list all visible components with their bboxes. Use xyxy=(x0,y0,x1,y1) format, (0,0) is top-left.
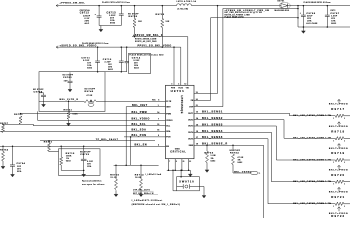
resistor R9754 xyxy=(232,144,234,146)
ground filter xyxy=(83,170,85,174)
wire riser to LED row 1 xyxy=(289,113,291,116)
svg-text:0402: 0402 xyxy=(66,160,71,163)
wire U9701 OUT row 1 xyxy=(194,112,290,114)
ground for C9712 C9713 xyxy=(100,26,102,30)
svg-text:+: + xyxy=(300,12,302,14)
svg-text:R9754: R9754 xyxy=(230,152,239,155)
svg-text:CRITICAL: CRITICAL xyxy=(170,151,186,154)
svg-text:(EEPROM should set XM_I_REG=1): (EEPROM should set XM_I_REG=1) xyxy=(132,203,181,206)
wire U9701 OUT row 3 xyxy=(194,125,276,127)
svg-text:FLTR: FLTR xyxy=(166,101,172,103)
svg-text:9: 9 xyxy=(158,135,159,137)
svg-text:BKLT+PROG: BKLT+PROG xyxy=(329,126,348,128)
svg-text:0402: 0402 xyxy=(108,68,113,71)
svg-text:1: 1 xyxy=(158,105,159,107)
svg-text:BKL_LED_CATH2_CONN 1.7%: BKL_LED_CATH2_CONN 1.7% xyxy=(293,137,331,140)
svg-text:R9764: R9764 xyxy=(0,149,9,152)
svg-text:BKL_FLTR_R: BKL_FLTR_R xyxy=(60,99,79,101)
svg-text:0603: 0603 xyxy=(110,23,115,25)
svg-text:PWM: PWM xyxy=(166,113,171,115)
svg-text:R9717: R9717 xyxy=(331,107,345,111)
svg-text:16: 16 xyxy=(196,131,198,133)
svg-text:2: 2 xyxy=(344,206,345,208)
svg-text:VIN: VIN xyxy=(186,87,190,89)
svg-text:21: 21 xyxy=(183,161,185,163)
svg-text:BKL_SENSE_R: BKL_SENSE_R xyxy=(202,143,228,146)
capacitor C9713 xyxy=(121,5,123,7)
capacitor C9711 xyxy=(97,46,99,48)
svg-text:LP8545SQE: LP8545SQE xyxy=(180,96,183,114)
wire PON riser xyxy=(130,137,132,165)
svg-text:1: 1 xyxy=(333,184,334,186)
wire U9701 OUT row 4 xyxy=(194,131,272,133)
svg-text:BKL_PON: BKL_PON xyxy=(132,134,147,137)
svg-text:EN: EN xyxy=(166,146,169,148)
svg-text:MA160M-63G: MA160M-63G xyxy=(275,9,290,12)
svg-text:BKLT+PROG: BKLT+PROG xyxy=(329,170,348,172)
svg-text:BKL_SENS5: BKL_SENS5 xyxy=(202,136,223,139)
svg-text:BKL_SDA: BKL_SDA xyxy=(132,129,147,132)
net +S5V1D_SO_BKL_VDDIO xyxy=(56,46,58,49)
svg-text:XW9710: XW9710 xyxy=(179,180,194,183)
resistor R9718 xyxy=(338,122,340,127)
net BKL_SDA row xyxy=(0,130,166,132)
ground C9764 xyxy=(12,171,14,175)
resistor R9721 xyxy=(338,187,340,192)
svg-text:15: 15 xyxy=(196,124,198,126)
svg-text:10K: 10K xyxy=(166,21,170,23)
svg-text:BKL_VDDIO: BKL_VDDIO xyxy=(132,118,150,121)
svg-text:20%: 20% xyxy=(87,166,91,168)
net BKL_VSENSE_R row xyxy=(194,144,264,146)
svg-text:FB: FB xyxy=(191,100,194,102)
wire FB line xyxy=(211,17,299,19)
svg-text:OUT2: OUT2 xyxy=(188,119,193,121)
wire to U9701 pin 12 xyxy=(187,37,189,86)
svg-text:1: 1 xyxy=(333,118,334,120)
svg-text:0402: 0402 xyxy=(211,159,216,162)
svg-text:D9701: D9701 xyxy=(278,0,285,2)
svg-text:BKL_VSYNC: BKL_VSYNC xyxy=(234,171,252,173)
svg-text:1: 1 xyxy=(333,140,334,142)
svg-text:15: 15 xyxy=(157,124,159,126)
svg-text:VDDIO: VDDIO xyxy=(166,120,173,122)
svg-text:2: 2 xyxy=(344,162,345,164)
svg-text:PLACE NEAR U9701 I3.1mm: PLACE NEAR U9701 I3.1mm xyxy=(82,42,109,45)
wire R9753 to R9757 xyxy=(3,123,33,125)
svg-text:R9722: R9722 xyxy=(331,214,345,218)
resistor R9731 xyxy=(48,140,50,142)
ground R9741 xyxy=(68,119,70,123)
svg-text:ALO: ALO xyxy=(85,22,90,25)
svg-text:BKL_LED_CATH4_CONN 1.7%: BKL_LED_CATH4_CONN 1.7% xyxy=(293,180,331,183)
svg-text:see spec for others: see spec for others xyxy=(82,183,105,186)
svg-text:OUT3: OUT3 xyxy=(188,126,193,128)
svg-text:8: 8 xyxy=(176,161,177,163)
svg-text:R9753: R9753 xyxy=(14,114,23,116)
svg-text:20%: 20% xyxy=(17,171,22,173)
svg-text:ISET: ISET xyxy=(166,106,171,108)
resistor R9720 xyxy=(338,165,340,170)
node output xyxy=(297,5,299,7)
wire U9701 OUT row 5 xyxy=(194,138,268,140)
svg-text:BKL_SENS3: BKL_SENS3 xyxy=(202,123,223,126)
svg-text:2: 2 xyxy=(344,140,345,142)
svg-text:5: 5 xyxy=(158,100,159,102)
svg-text:R9703: R9703 xyxy=(129,16,138,18)
svg-text:16.2R: 16.2R xyxy=(135,177,142,179)
svg-text:I_LED=13.1mA: I_LED=13.1mA xyxy=(145,173,161,176)
svg-text:GND5: GND5 xyxy=(175,148,180,150)
svg-text:7: 7 xyxy=(158,119,159,121)
svg-text:OUT5: OUT5 xyxy=(188,139,193,141)
wire R9731 to group box xyxy=(48,150,50,152)
svg-text:14: 14 xyxy=(157,111,159,114)
net BKL_VDDIO row xyxy=(37,111,39,120)
wire ISET riser xyxy=(125,107,127,166)
svg-text:BKL_SCL: BKL_SCL xyxy=(132,123,147,126)
svg-text:I_LED=41K*1.13/Riset: I_LED=41K*1.13/Riset xyxy=(132,199,163,202)
svg-text:0603: 0603 xyxy=(331,23,336,25)
wire riser to LED row 5 xyxy=(267,139,269,204)
svg-text:OUT1: OUT1 xyxy=(188,113,193,115)
svg-text:23: 23 xyxy=(196,105,198,107)
ground R9714 xyxy=(140,190,142,194)
ground C9759 xyxy=(43,101,45,105)
svg-text:+PPBUS_SW_BKL: +PPBUS_SW_BKL xyxy=(60,2,86,4)
svg-text:100K: 100K xyxy=(73,114,79,116)
svg-text:TP_BKL_FAULT: TP_BKL_FAULT xyxy=(96,138,119,141)
capacitor C9797 xyxy=(327,5,329,7)
wire FB to U9701 pin 24 xyxy=(194,100,211,102)
svg-text:BKL_ISET: BKL_ISET xyxy=(132,104,148,107)
node SW xyxy=(217,5,219,7)
wire riser to LED row 3 xyxy=(275,126,277,160)
ground R9755 xyxy=(206,166,208,170)
svg-text:VLDO: VLDO xyxy=(178,87,183,89)
resistor R9703 xyxy=(134,5,136,7)
svg-text:17: 17 xyxy=(196,137,198,139)
svg-text:SDA: SDA xyxy=(166,130,171,133)
test point below R9740 xyxy=(90,101,92,103)
svg-text:1UF: 1UF xyxy=(64,80,68,82)
net BKL_LED_CATH1 row xyxy=(290,115,336,117)
svg-text:BKL_EN: BKL_EN xyxy=(135,144,148,147)
ground output caps xyxy=(302,27,304,31)
wire ISET link row xyxy=(114,164,159,166)
svg-text:OVP: OVP xyxy=(189,106,194,108)
svg-text:1: 1 xyxy=(259,173,260,175)
svg-text:BKL_LED_CATH5_CONN 1.7%: BKL_LED_CATH5_CONN 1.7% xyxy=(293,202,331,205)
resistor R9714 xyxy=(140,165,142,179)
svg-text:PP5V1_SO_BKL_VDDO: PP5V1_SO_BKL_VDDO xyxy=(138,45,172,47)
capacitor C9764 xyxy=(12,146,14,148)
svg-text:Rpwm=9.42kOhm: Rpwm=9.42kOhm xyxy=(82,180,102,183)
svg-text:22: 22 xyxy=(189,161,191,163)
svg-text:R9731: R9731 xyxy=(44,141,53,143)
resistor R9716 xyxy=(115,165,117,179)
svg-text:PON: PON xyxy=(166,137,171,139)
net +S5V1D_SW_BKL_R xyxy=(132,36,188,38)
resistor R9719 xyxy=(338,144,340,149)
svg-text:BKLT+PROG: BKLT+PROG xyxy=(329,192,348,194)
resistor R9717 xyxy=(338,99,340,104)
net BKL_EN row xyxy=(0,145,166,147)
wire riser to LED row 2 xyxy=(283,120,285,139)
wire OVP to U9701 pin 23 xyxy=(194,106,223,108)
svg-text:BKLT+PROG: BKLT+PROG xyxy=(329,148,348,150)
net BKL_LED_CATH4 row xyxy=(272,181,336,183)
svg-text:R9720: R9720 xyxy=(331,173,345,177)
svg-text:R9719: R9719 xyxy=(331,151,345,155)
wire SW to U9701 pin 19 xyxy=(194,93,218,95)
svg-text:R9718: R9718 xyxy=(331,130,345,134)
capacitor C9710 xyxy=(121,46,123,48)
svg-text:+PPBUS_SW_LCDBKLT_PWR_SW: +PPBUS_SW_LCDBKLT_PWR_SW xyxy=(225,10,270,12)
net BKL_LED_CATH5 row xyxy=(268,203,335,205)
net BKL_PWM row xyxy=(21,113,166,115)
net +PPBUS_SW_LCDBKLT_PWR_SW xyxy=(223,8,298,10)
net BKL_LED_CATH3 row xyxy=(276,159,335,161)
wire vdd caps ground bus xyxy=(105,71,127,73)
svg-text:SCL: SCL xyxy=(166,125,171,127)
net +PPBUS_SW_BKL xyxy=(56,4,58,7)
ground XW9710 xyxy=(203,192,205,196)
svg-text:18: 18 xyxy=(196,144,198,146)
svg-text:C9723: C9723 xyxy=(80,154,89,156)
ground C9761 xyxy=(69,86,71,90)
svg-text:0402: 0402 xyxy=(238,161,243,164)
capacitor C9723 xyxy=(83,146,85,148)
svg-text:19: 19 xyxy=(196,92,198,94)
svg-text:ALO-CASE: ALO-CASE xyxy=(306,22,318,25)
ground R9764 xyxy=(2,163,4,167)
resistor R9755 xyxy=(206,144,208,146)
U9701 bottom ground pins xyxy=(168,159,170,171)
resistor R9722 xyxy=(338,207,340,212)
svg-text:BKL_LED_CATH3_CONN 1.7%: BKL_LED_CATH3_CONN 1.7% xyxy=(293,158,331,161)
wire caps ground link xyxy=(99,25,121,27)
wire output ground rail xyxy=(298,26,350,28)
svg-text:0402: 0402 xyxy=(134,67,139,70)
svg-text:BKL_LED_CATH1_CONN 1.7%: BKL_LED_CATH1_CONN 1.7% xyxy=(293,114,331,117)
svg-text:2: 2 xyxy=(344,118,345,120)
svg-text:16: 16 xyxy=(157,130,159,132)
resistor R9715 xyxy=(60,146,62,148)
svg-text:2: 2 xyxy=(344,184,345,186)
svg-text:1: 1 xyxy=(333,162,334,164)
group box NO STUFF filter xyxy=(39,72,105,112)
wire bottom of filter xyxy=(61,169,83,171)
svg-text:PLACE NEAR D9701 E3.5mm: PLACE NEAR D9701 E3.5mm xyxy=(304,1,331,4)
svg-text:(0.75A-OM): (0.75A-OM) xyxy=(178,7,189,10)
capacitor C9712 xyxy=(98,5,100,7)
net BKL_VSYNC xyxy=(233,172,250,174)
net BKL_PON row xyxy=(124,136,166,138)
svg-text:7: 7 xyxy=(169,161,170,163)
svg-text:BKLT+PROG: BKLT+PROG xyxy=(329,104,348,106)
svg-text:0402: 0402 xyxy=(87,67,92,70)
svg-text:47.5K: 47.5K xyxy=(87,94,93,97)
svg-text:BST_PWR_SUPPLY=6.3-27.5V @ 1.7: BST_PWR_SUPPLY=6.3-27.5V @ 1.7 5W xyxy=(225,12,263,14)
wire to U9701 pin 2 xyxy=(180,47,182,85)
svg-text:BKL_PWM: BKL_PWM xyxy=(132,111,148,114)
ground U9701 xyxy=(189,170,191,174)
svg-text:47.5K: 47.5K xyxy=(238,156,244,159)
svg-text:C9761: C9761 xyxy=(63,77,72,79)
svg-text:+S5V1D_SW_BKL_R: +S5V1D_SW_BKL_R xyxy=(133,35,163,37)
svg-text:10K: 10K xyxy=(138,21,142,23)
svg-text:R9757: R9757 xyxy=(0,123,8,125)
svg-text:BKL_SENS4: BKL_SENS4 xyxy=(202,130,223,133)
wire riser to LED row 4 xyxy=(271,132,273,181)
svg-text:PLACE C9712+C9713 0.7mm: PLACE C9712+C9713 0.7mm xyxy=(102,1,130,4)
wire to U9701 pin 3 xyxy=(173,46,175,48)
wire riser to LED row 6 xyxy=(263,145,265,218)
wire top power rail xyxy=(56,5,177,7)
resistor R9702 xyxy=(162,5,164,7)
svg-text:R9702: R9702 xyxy=(156,14,165,16)
svg-text:NC: NC xyxy=(152,100,156,102)
net BKL_ISET row xyxy=(126,106,165,108)
spark gap XW9710 xyxy=(172,169,174,171)
svg-text:PLACE NEAR+C9714 I3.4mm 0402: PLACE NEAR+C9714 I3.4mm 0402 xyxy=(129,54,163,57)
svg-text:R9740: R9740 xyxy=(85,90,94,93)
svg-text:+: + xyxy=(95,14,97,16)
net BKL_SCL row xyxy=(33,125,165,127)
svg-text:BKL_SENS2: BKL_SENS2 xyxy=(202,117,223,120)
svg-text:24: 24 xyxy=(196,98,198,101)
svg-text:51.1R: 51.1R xyxy=(111,177,118,179)
svg-text:R9714: R9714 xyxy=(135,173,144,176)
net TP_BKL_FAULT row xyxy=(40,140,155,142)
svg-text:ISNS: ISNS xyxy=(189,145,194,147)
capacitor C9796 xyxy=(303,5,305,7)
wire U9701 OUT row 2 xyxy=(194,119,284,121)
svg-text:L9701 4.7UH 1.1A: L9701 4.7UH 1.1A xyxy=(177,0,197,3)
svg-text:R9721: R9721 xyxy=(331,195,345,199)
group box R9715 C9723 xyxy=(59,149,101,176)
ground R9716 xyxy=(115,190,117,194)
svg-text:ROUTE_SENSE_0.2MM: ROUTE_SENSE_0.2MM xyxy=(135,39,157,41)
resistor R9741 xyxy=(68,100,70,102)
svg-text:4: 4 xyxy=(158,144,159,147)
IC U9701 backlight driver xyxy=(166,85,195,158)
svg-text:C9764: C9764 xyxy=(17,162,26,165)
svg-text:1: 1 xyxy=(333,206,334,208)
svg-text:CNT3: CNT3 xyxy=(330,10,335,12)
svg-text:BKL_SENS1: BKL_SENS1 xyxy=(202,111,223,114)
net BKL_LED_CATH2 row xyxy=(284,137,335,139)
svg-text:13: 13 xyxy=(196,112,198,114)
test point BKL_VSYNC xyxy=(250,171,258,174)
wire net BKL_FLTR_R row xyxy=(39,100,84,102)
svg-text:OUT4: OUT4 xyxy=(188,131,193,134)
